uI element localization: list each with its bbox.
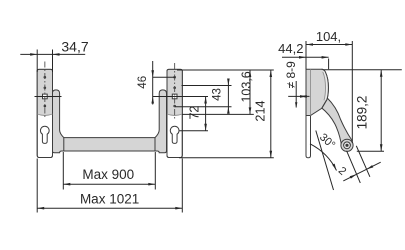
dim 2 arrows (350, 174, 357, 178)
device body profile (306, 69, 328, 115)
svg-text:104,: 104, (316, 29, 341, 44)
door plate strip (edge-on) (306, 110, 311, 158)
dim Max 1021 arrows (37, 207, 44, 210)
left square cross line (35, 96, 62, 98)
dim 103,6 line (249, 70, 251, 114)
right plate fixing dots (173, 76, 176, 107)
svg-text:34,7: 34,7 (61, 39, 88, 55)
top extension line (177, 69, 274, 71)
left plate spindle square (43, 94, 48, 99)
dim 104 line (306, 44, 352, 46)
dim 34,7 arrows (30, 53, 37, 56)
svg-text:72: 72 (188, 106, 202, 120)
svg-text:46: 46 (137, 76, 149, 89)
dim 46 arrows (151, 70, 154, 77)
dim Max 1021 line (37, 207, 182, 209)
dim Max 900 extensions (63, 152, 155, 190)
dim 189,2 bottom extension (357, 150, 384, 152)
dim 72 line (205, 97, 207, 131)
dim 46 line (152, 61, 154, 105)
diagonal E2 (356, 146, 370, 177)
right arm bracket (155, 90, 167, 153)
left arm bracket (52, 90, 63, 153)
dim 43 arrows (227, 79, 230, 86)
dim 214 line (270, 70, 272, 158)
dim 46 extensions (153, 76, 175, 78)
dim 189,2 line (380, 70, 382, 152)
svg-text:214: 214 (254, 100, 268, 121)
right centerline (174, 63, 176, 119)
svg-text:43: 43 (212, 88, 224, 101)
dim 72 extension cylinder (180, 130, 209, 132)
dim 43 extensions (182, 85, 232, 87)
svg-text:Max 900: Max 900 (82, 167, 134, 182)
right plate spindle square (172, 94, 177, 99)
dim 43 line (227, 79, 229, 114)
svg-text:189,2: 189,2 (354, 96, 369, 130)
dim 30deg arrow (332, 164, 336, 171)
svg-text:≠ 8-9: ≠ 8-9 (284, 61, 298, 89)
plate bottom extension (179, 157, 274, 159)
wire bar horizontal (60, 138, 164, 151)
dim 104 arrows (306, 43, 313, 46)
dim Max 900 line (63, 183, 155, 185)
bar hub circles (341, 139, 353, 151)
dim 103,6 arrows (249, 70, 252, 77)
left euro cylinder cutout (40, 126, 49, 143)
dim 30deg leader arc (310, 144, 337, 171)
dim 8-9 arrows (300, 95, 307, 98)
right plate (167, 69, 182, 157)
dim 189,2 arrows (380, 70, 383, 77)
dim 44,2 extension (328, 59, 330, 70)
lever band to hub (321, 98, 352, 149)
dim 214 arrows (270, 70, 273, 77)
dim 44,2 line (282, 56, 329, 58)
left plate fixing dots (44, 76, 47, 107)
dim 34,7 extension lines (37, 50, 52, 73)
diagonal line D1 (316, 131, 334, 191)
svg-text:44,2: 44,2 (278, 41, 303, 56)
dim 189,2 top extension (324, 69, 402, 71)
dim 8-9 leader vertical (295, 81, 297, 108)
dim 72 arrows (204, 97, 207, 104)
right euro cylinder cutout (170, 126, 179, 143)
svg-text:Max 1021: Max 1021 (80, 192, 139, 207)
svg-text:103,6: 103,6 (239, 71, 253, 102)
dim 44,2 arrows (299, 56, 306, 59)
dim 34,7 line (20, 53, 85, 55)
dim 2 line (343, 162, 380, 181)
diagonal E1 (347, 151, 361, 183)
dim Max 900 arrows (63, 183, 70, 186)
dim 104 extensions (306, 41, 352, 143)
left plate (37, 69, 52, 157)
left centerline (44, 62, 46, 119)
dim Max 1021 extensions (37, 159, 182, 213)
dim 8-9 axis line (288, 95, 309, 97)
dim 103,6 bottom extension (182, 113, 254, 115)
